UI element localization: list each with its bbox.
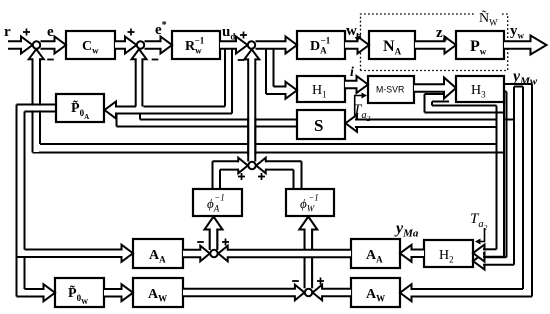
wire sum5 output up left	[209, 228, 211, 250]
wire to AW right bottom	[412, 296, 533, 298]
wire sum2 minus shaft right	[141, 61, 143, 107]
sign plus sum5	[222, 239, 229, 246]
svg-text:e: e	[47, 24, 54, 40]
wire phiA up inner	[219, 170, 221, 189]
feedback model P0A	[56, 94, 104, 122]
wire connector v1 v2	[504, 119, 514, 121]
summing junction 2	[137, 41, 144, 48]
wire sum6 output up right	[311, 228, 313, 289]
arrowhead into H2 lower	[473, 253, 485, 270]
arrow sum3 to DA^-1	[256, 37, 298, 54]
wire yMw down v3 right	[531, 84, 533, 297]
dotted enclosure N~W	[361, 14, 508, 71]
block AW left	[133, 278, 183, 307]
wire up into sum1 left	[32, 61, 34, 153]
wire v1 left	[496, 106, 498, 250]
wire phiW up outer	[301, 161, 303, 189]
wire yMw down v3 left	[522, 87, 524, 290]
sign minus sum5	[197, 241, 204, 243]
arrowhead into sum4 right	[256, 158, 266, 174]
wire S-output jog right	[139, 114, 141, 120]
wire lower run top	[432, 105, 497, 107]
output arrow yw	[504, 36, 547, 55]
wire P0A output top	[17, 104, 57, 106]
plant block Pw	[456, 31, 504, 59]
block AA left	[133, 239, 183, 268]
wire run to sum2 top	[144, 106, 226, 108]
sign minus sum3	[238, 59, 245, 61]
arrow i: H1 to M-SVR	[345, 76, 368, 93]
wire sum6 output up left	[304, 228, 306, 289]
arrowhead into P0W	[43, 284, 55, 301]
summing junction 3	[248, 41, 255, 48]
wire Ta2 bus to S bottom	[354, 126, 497, 128]
arrowhead into H2 upper	[473, 245, 485, 262]
sign plus sum4 right	[258, 173, 265, 180]
wire run top west part	[116, 106, 136, 108]
block H2	[424, 240, 473, 267]
arrowhead into sum1 from below	[29, 49, 44, 62]
arrow r to sum1	[8, 37, 33, 54]
arrow za: NA to Pw	[415, 37, 456, 54]
arrow sum6 to phiW	[299, 217, 317, 289]
svg-text:r: r	[4, 24, 11, 40]
arrow P0W to AW left	[104, 284, 133, 301]
wire P0A output down inner upper	[24, 112, 26, 250]
arrow e: sum1 to Cw	[41, 37, 67, 54]
arrowhead into S	[346, 115, 358, 132]
wire S output bottom	[117, 126, 298, 128]
thin wire Ta2 to H2	[479, 228, 485, 242]
arrowhead into AA left	[121, 245, 133, 262]
block NA	[369, 31, 415, 59]
wire v1 right	[503, 113, 505, 257]
arrowhead into sum2 from below	[132, 49, 147, 62]
feedback model P0W	[55, 278, 104, 307]
block S	[297, 110, 345, 139]
wire S output top	[140, 119, 297, 121]
wire yMw down v2 left	[506, 92, 508, 258]
controller block Cw	[66, 31, 115, 59]
arrow H2 to AA right	[400, 245, 424, 262]
summing junction 1	[33, 41, 40, 48]
arrow AA right to sum5	[218, 246, 351, 262]
wire up into sum1 right	[39, 61, 41, 144]
wire to H2 lower bottom	[482, 264, 515, 266]
wire H3 lower input right	[431, 102, 433, 106]
wire yMw feedback long top	[40, 143, 497, 145]
wire P0A output bottom	[25, 111, 57, 113]
wire H3 lower input left	[424, 94, 426, 113]
inverse block DA^-1	[297, 31, 345, 59]
arrow AA left to sum5	[183, 246, 210, 262]
arrow wa: DA^-1 to NA	[345, 37, 369, 54]
sign plus sum4 left	[238, 173, 245, 180]
wire yMw feedback long bottom	[33, 152, 505, 154]
wire to H2 upper top	[482, 248, 497, 250]
wire ud feedback down right side	[231, 49, 233, 114]
wire run to P0A bottom	[116, 113, 232, 115]
arrow AW left to sum6	[183, 285, 304, 301]
sign minus sum6	[292, 280, 299, 282]
sign plus sum6	[317, 278, 324, 285]
wire H3 corner drop	[503, 103, 505, 113]
wire phiA up outer	[212, 161, 214, 189]
wire yMw down v2 right	[513, 87, 515, 265]
wire lower run bottom	[425, 112, 505, 114]
wire branch to H1 left	[265, 49, 267, 95]
wire phiW up inner	[293, 170, 295, 189]
wire to AW right top	[412, 288, 524, 290]
block M-SVR	[368, 76, 414, 103]
arrow e* : sum2 to Rw^-1	[145, 37, 173, 54]
sign plus sum1	[23, 29, 30, 36]
wire ud feedback down left side	[224, 49, 226, 107]
sign plus sum2	[128, 29, 135, 36]
svg-text:S: S	[314, 116, 323, 135]
svg-text:i: i	[350, 65, 354, 80]
wire split separator	[514, 86, 523, 88]
block AA right	[351, 239, 400, 268]
wire P0A output down outer	[16, 105, 18, 297]
tick wa	[357, 33, 359, 39]
arrowhead into sum3 from below	[244, 49, 259, 64]
block phiW^-1	[286, 189, 334, 216]
block phiA^-1	[193, 189, 242, 216]
wire H3 output bottom	[504, 91, 507, 93]
wire branch to H1 right	[273, 49, 275, 87]
arrow AW right to sum6	[313, 285, 351, 301]
arrowhead into sum4 left	[238, 158, 248, 174]
sign minus sum2	[152, 59, 159, 61]
sign plus sum3	[240, 32, 247, 39]
wire sum5 output up right	[216, 228, 218, 250]
wire to H2 upper bottom	[482, 256, 505, 258]
arrow M-SVR to H3	[414, 78, 456, 99]
wire to AA left bottom	[17, 256, 122, 258]
wire H3 output top	[504, 83, 532, 85]
arrow sum5 to phiA	[205, 217, 223, 251]
block H1	[297, 76, 345, 102]
wire to AA left top	[25, 249, 122, 251]
summing junction 4	[248, 162, 255, 169]
svg-text:M-SVR: M-SVR	[376, 85, 404, 95]
arrow Cw to sum2	[115, 37, 137, 54]
arrowhead into AW right	[400, 284, 412, 301]
wire Ta2 bus to S top	[354, 119, 497, 121]
wire to P0W bottom	[17, 296, 44, 298]
arrowhead into H1	[285, 82, 297, 99]
arrowhead into P0A	[105, 102, 119, 119]
summing junction 5	[210, 250, 217, 257]
arrow ud: Rw^-1 to sum3	[220, 37, 248, 54]
wire sum4 output up left	[247, 63, 249, 162]
inverse block Rw^-1	[172, 31, 220, 59]
wire sum2 minus shaft left	[135, 61, 137, 107]
wire S-output jog left	[116, 114, 118, 127]
summing junction 6	[305, 289, 312, 296]
thin wire Ta2 to M-SVR	[355, 96, 362, 119]
sign minus sum1	[47, 59, 54, 61]
wire sum4 output up right	[254, 63, 256, 162]
block H3	[456, 76, 504, 102]
wire P0A output down inner lower	[24, 257, 26, 289]
wire to H2 lower top	[482, 256, 507, 258]
block AW right	[351, 278, 400, 307]
wire to P0W top	[25, 288, 44, 290]
